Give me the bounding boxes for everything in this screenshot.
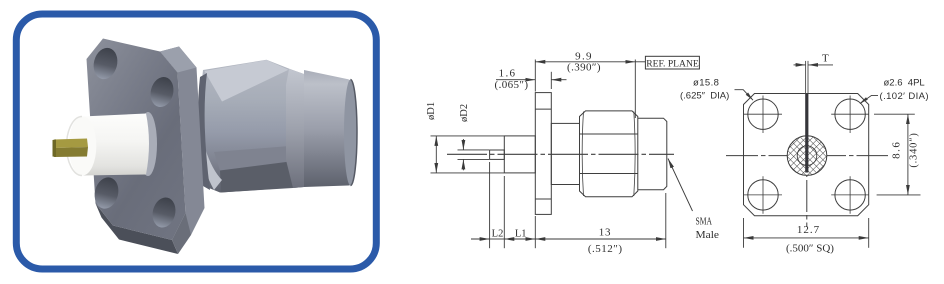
dim D2 lower extension line <box>458 158 490 160</box>
flange back/thickness (photo) <box>96 47 205 255</box>
dim 1.6 right arrow line <box>551 79 566 81</box>
svg-text:SMA: SMA <box>696 216 713 228</box>
svg-text:1.6: 1.6 <box>499 68 517 80</box>
flange hole bottom-left (photo) <box>91 175 121 211</box>
svg-text:(.625″ DIA): (.625″ DIA) <box>680 91 729 102</box>
flat pin line front view <box>805 61 808 173</box>
body cylinder outline <box>551 123 579 184</box>
svg-text:ø15.8: ø15.8 <box>693 78 719 89</box>
hole bottom-right centerlines <box>831 194 869 196</box>
connector barrel (photo) <box>304 70 357 187</box>
dim 8.6 upper extension line <box>874 113 915 115</box>
svg-text:REF. PLANE: REF. PLANE <box>646 58 699 69</box>
hole bottom-left centerlines <box>744 194 782 196</box>
flange hole bottom-right (photo) <box>149 195 178 230</box>
extension line dielectric face <box>503 176 505 248</box>
dim D2 upper arrow line <box>462 139 464 150</box>
svg-text:(.390″): (.390″) <box>567 62 601 74</box>
side view dimension texts <box>426 50 719 254</box>
svg-text:øD2: øD2 <box>459 104 470 122</box>
front view texts <box>680 78 929 102</box>
dim T left arrow line <box>794 64 806 66</box>
mounting hole top-right <box>835 99 865 129</box>
svg-text:8.6: 8.6 <box>891 141 903 159</box>
svg-text:ø2.6 4PL: ø2.6 4PL <box>884 78 925 89</box>
hole top-right centerlines <box>831 113 869 115</box>
insulator junction shadow (photo) <box>139 112 157 176</box>
dim D2 lower arrow line <box>462 159 464 170</box>
white PTFE insulator (photo) <box>82 114 149 176</box>
leader SMA Male <box>668 159 693 212</box>
flange front face (photo) <box>87 39 186 241</box>
threaded barrel outline <box>638 118 667 190</box>
svg-text:(.340″): (.340″) <box>909 132 920 167</box>
dim 8.6 lower extension line <box>877 194 921 196</box>
extension line pin tip <box>489 162 491 248</box>
leader dia 15.8 <box>735 90 754 101</box>
front view horizontal centerline <box>726 155 758 157</box>
hex nut outline <box>580 111 638 197</box>
flange square outline <box>744 94 869 216</box>
REF. PLANE box <box>635 56 699 69</box>
dim 1.6 extension tick <box>550 72 552 89</box>
svg-text:T: T <box>822 53 829 65</box>
dim 12.7 left extension line <box>743 218 745 248</box>
dim line L2 outside arrows <box>471 238 490 240</box>
flange side outline <box>535 93 551 215</box>
dim D1 lower extension line <box>431 172 505 174</box>
svg-text:L2: L2 <box>492 228 504 239</box>
flange hole top-left (photo) <box>90 45 120 81</box>
front view vertical centerline <box>806 173 808 178</box>
dim 1.6 left arrow line <box>496 79 535 81</box>
svg-text:12.7: 12.7 <box>797 224 820 236</box>
dim D1 upper extension line <box>431 135 505 137</box>
dim 12.7 dimension line <box>744 237 869 239</box>
mounting hole top-left <box>748 99 778 129</box>
centre pin gold (photo) <box>53 139 89 158</box>
dim D1 dimension line <box>435 136 437 173</box>
dielectric outline <box>504 136 535 173</box>
svg-text:(.500″ SQ): (.500″ SQ) <box>786 242 834 254</box>
svg-text:9.9: 9.9 <box>575 50 593 62</box>
dim 9.9 dimension line <box>535 61 635 63</box>
mounting hole bottom-right <box>835 180 865 210</box>
leader dia 2.6 <box>860 95 879 103</box>
ref plane extension line <box>634 60 636 119</box>
blue rounded frame <box>16 14 376 269</box>
centre pin outline <box>490 150 505 159</box>
dim T right arrow line <box>808 64 833 66</box>
extension line flange face <box>534 216 536 248</box>
extension line barrel end <box>665 193 667 248</box>
centerline side view <box>447 153 674 155</box>
svg-text:Male: Male <box>696 229 720 241</box>
connector body hex nut (photo) <box>197 60 304 193</box>
hole top-left centerlines <box>744 113 782 115</box>
svg-text:(.512″): (.512″) <box>588 243 623 255</box>
mounting hole bottom-left <box>748 180 778 210</box>
dim 8.6 dimension line <box>907 114 909 195</box>
flange hole top-right (photo) <box>147 75 176 110</box>
dim 9.9 extension line <box>534 60 536 92</box>
dim line 13 <box>535 238 666 240</box>
svg-text:øD1: øD1 <box>426 102 437 120</box>
svg-text:L1: L1 <box>515 228 527 239</box>
dim line L1 <box>504 238 535 240</box>
dielectric circle with crosshatch <box>787 136 827 176</box>
dim 12.7 right extension line <box>868 218 870 248</box>
svg-text:(.065″): (.065″) <box>495 79 529 91</box>
svg-text:(.102′ DIA): (.102′ DIA) <box>880 91 929 102</box>
svg-text:13: 13 <box>599 226 612 238</box>
dim D2 upper extension line <box>458 149 490 151</box>
